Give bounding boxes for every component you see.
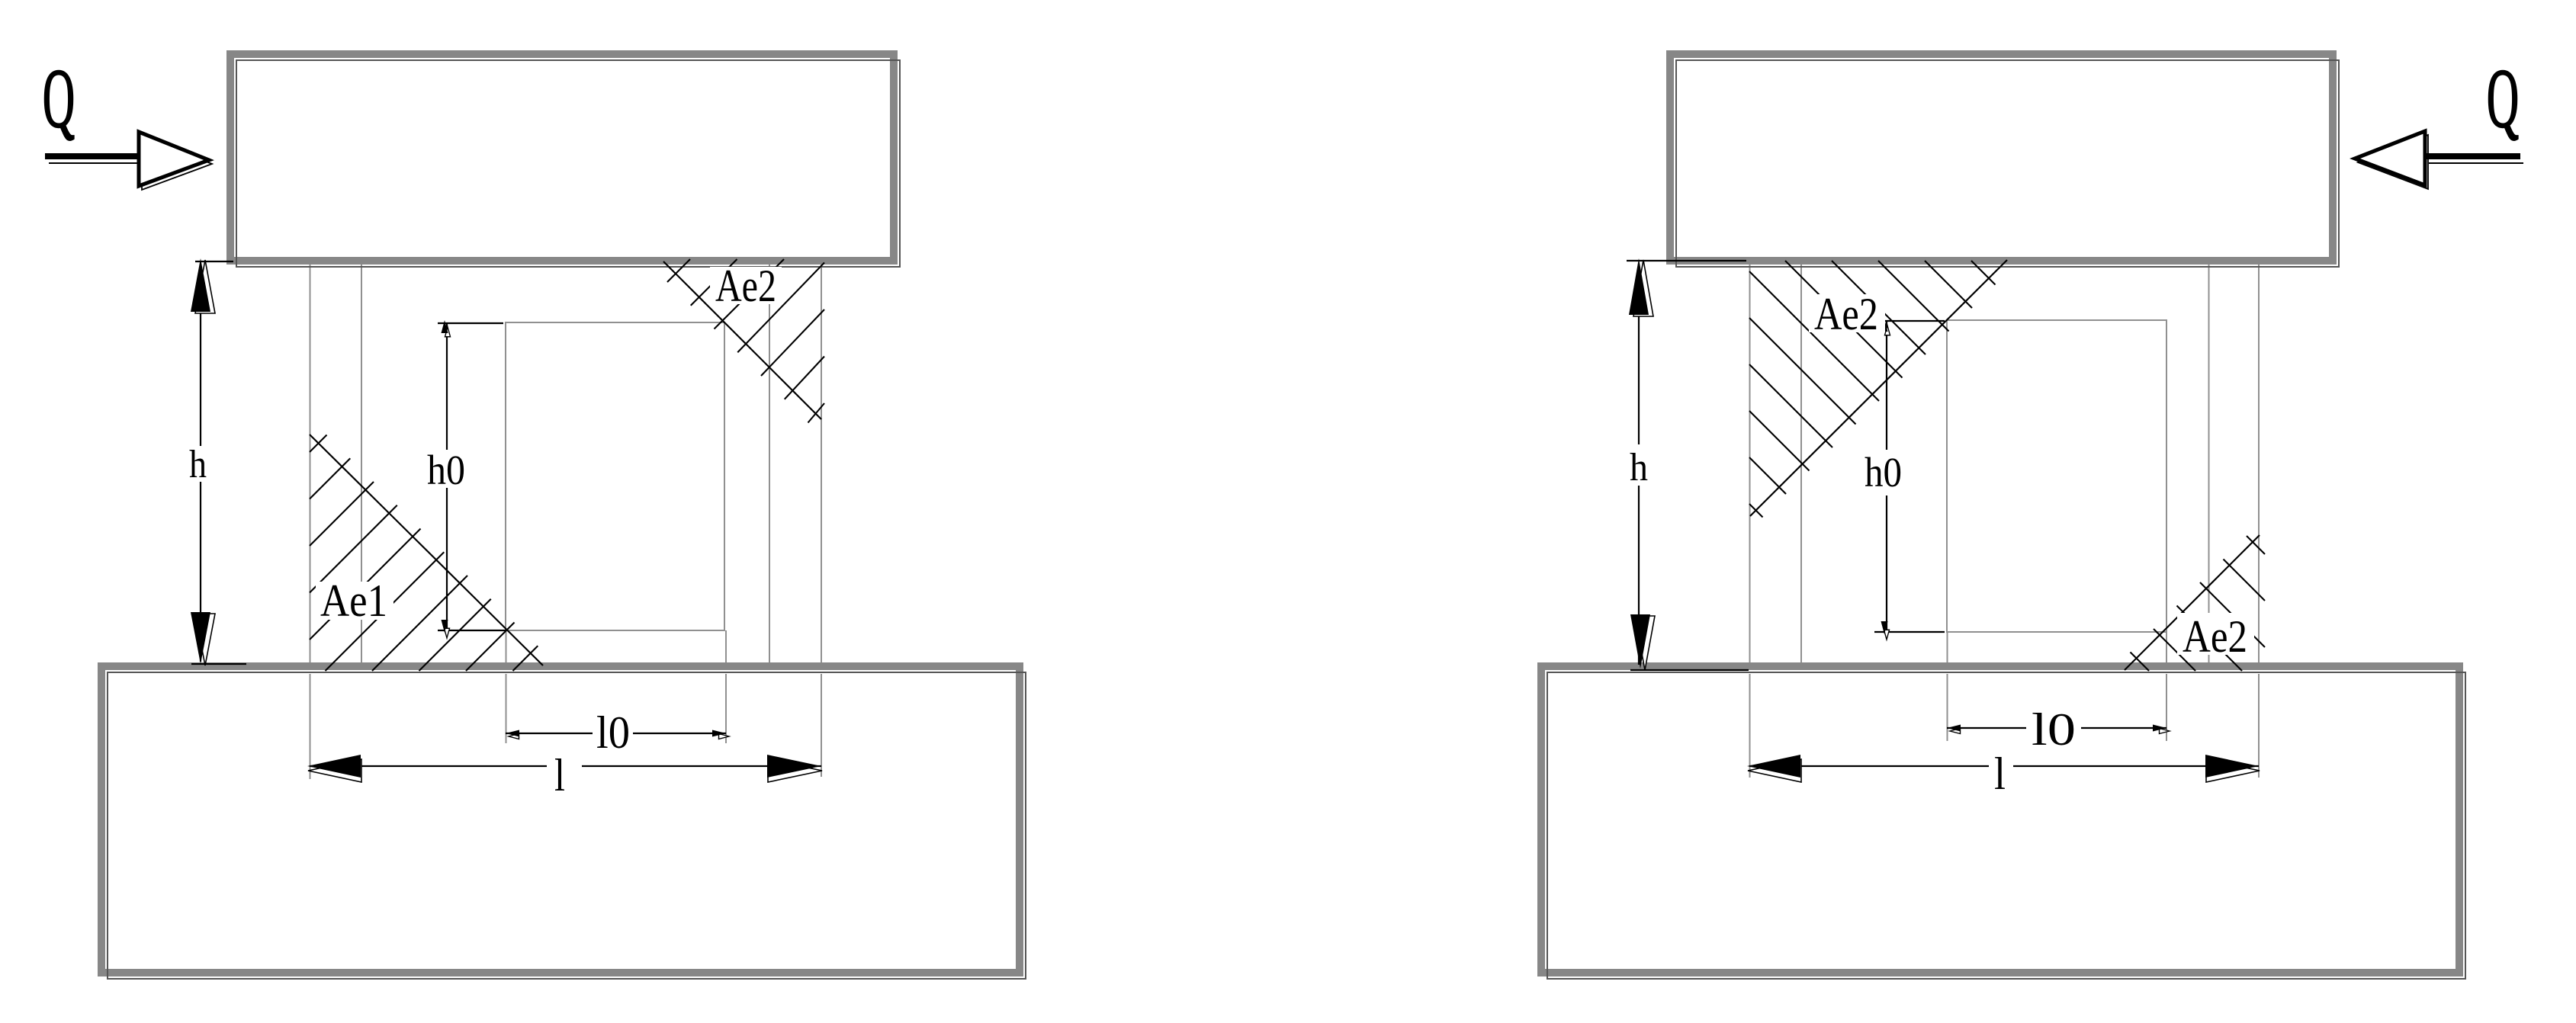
- top beam (right figure): [1670, 54, 2339, 267]
- dimension arrow h top (left): [191, 258, 215, 313]
- dimension arrow h0 top (left): [442, 320, 451, 337]
- hatch lines Ae2 (left): [667, 259, 824, 423]
- svg-text:Q: Q: [43, 52, 75, 145]
- hatch lines Ae2 bottom-right (right): [2131, 536, 2266, 671]
- svg-text:l0: l0: [2032, 704, 2076, 755]
- hatch lines Ae1 (left): [310, 435, 538, 672]
- dimension line h (right): [1627, 261, 1749, 670]
- wire: left extension lines above foundation: [506, 630, 727, 662]
- dimension arrow l0 left (right): [1947, 725, 1961, 734]
- label Ae2 (left): [710, 261, 782, 311]
- svg-text:Ae1: Ae1: [320, 576, 387, 626]
- dimension arrow l0 right (left): [712, 730, 729, 739]
- dimension arrow h0 top (right): [1881, 319, 1890, 335]
- dimension arrow h top (right): [1629, 258, 1653, 316]
- top beam (left figure): [230, 54, 900, 267]
- dimension line l (right): [1749, 765, 2259, 767]
- dimension line l (left): [310, 765, 821, 767]
- node: left pier wall edge lines: [310, 265, 822, 662]
- force arrow Q (right): [2355, 131, 2523, 189]
- hatch area Ae2 triangle hypotenuse (left): [663, 261, 821, 419]
- force arrow Q (left): [45, 132, 212, 190]
- svg-text:Q: Q: [2487, 52, 2519, 145]
- wire: right extension lines to dimensions: [1750, 674, 2260, 778]
- label Ae2 bottom-right (right): [2177, 611, 2254, 662]
- svg-text:l: l: [1994, 749, 2006, 799]
- dimension arrow h0 bottom (right): [1881, 621, 1890, 640]
- label Ae1 (left): [316, 576, 393, 626]
- dimension line l0 (left): [506, 733, 726, 734]
- hatch area Ae1 triangle hypotenuse (left): [310, 435, 543, 665]
- svg-text:h0: h0: [427, 447, 465, 493]
- dimension arrow l0 right (right): [2153, 725, 2170, 734]
- bottom beam / foundation (right figure): [1541, 666, 2465, 979]
- svg-text:l0: l0: [596, 707, 630, 758]
- dimension arrow h bottom (left): [191, 612, 215, 665]
- label Ae2 top-left (right): [1809, 289, 1885, 339]
- dimension arrow l right (right): [2205, 755, 2260, 782]
- dimension arrow h0 bottom (left): [442, 620, 450, 638]
- svg-text:Ae2: Ae2: [1814, 289, 1878, 339]
- svg-text:Ae2: Ae2: [2183, 611, 2247, 662]
- dimension line h0 (right): [1874, 321, 1945, 632]
- node: right inner effective-section box l0 x h0: [1947, 320, 2166, 632]
- dimension arrow h bottom (right): [1630, 614, 1655, 670]
- dimension line h (left): [191, 261, 246, 664]
- bottom beam / foundation (left figure): [101, 666, 1026, 979]
- dimension line l0 (right): [1947, 727, 2166, 729]
- wire: right extension lines above foundation: [1948, 632, 2167, 662]
- dimension line h0 (left): [438, 322, 506, 630]
- hatch area Ae2 top-left hypotenuse (right): [1750, 260, 2007, 516]
- svg-text:h0: h0: [1865, 449, 1902, 495]
- dimension arrow l left (right): [1747, 755, 1801, 782]
- wire: left extension lines to dimensions: [310, 674, 822, 779]
- svg-text:h: h: [1630, 446, 1648, 489]
- svg-text:h: h: [189, 443, 207, 486]
- hatch area Ae2 bottom-right hypotenuse (right): [2125, 535, 2260, 670]
- dimension arrow l left (left): [307, 755, 361, 782]
- dimension arrow l0 left (left): [506, 730, 519, 739]
- svg-text:l: l: [554, 750, 565, 800]
- hatch lines Ae2 top-left (right): [1749, 261, 1996, 518]
- dimension arrow l right (left): [767, 755, 822, 782]
- svg-text:Ae2: Ae2: [715, 261, 776, 311]
- node: left inner effective-section box l0 x h0: [506, 322, 724, 630]
- node: right pier wall edge lines: [1750, 265, 2260, 662]
